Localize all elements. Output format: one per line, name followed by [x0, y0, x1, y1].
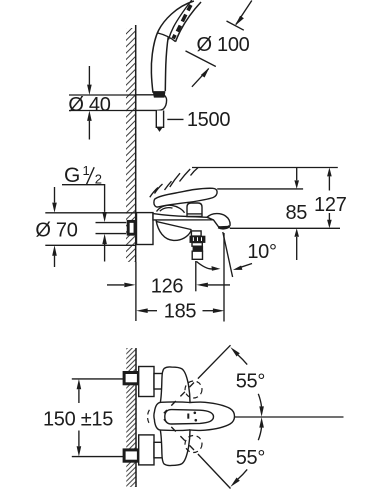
svg-text:85: 85 [285, 202, 307, 224]
dim 150±15 up arrow [78, 389, 80, 403]
supply pipe (side view) [96, 223, 127, 234]
spout outlet face (dark) [218, 226, 229, 228]
svg-text:1: 1 [83, 163, 90, 178]
55° upper diagonal line [198, 345, 231, 378]
shower outlet neck [191, 231, 201, 236]
wall line (bottom figure) [135, 348, 137, 487]
diverter knob [187, 203, 202, 217]
svg-text:126: 126 [151, 276, 184, 298]
hose stub below holder [156, 111, 163, 128]
hidden pivot arc left (dashed) [148, 410, 150, 424]
svg-text:150 ±15: 150 ±15 [43, 408, 113, 430]
shower holder bracket [136, 95, 167, 111]
svg-text:G: G [64, 164, 80, 187]
svg-text:127: 127 [314, 194, 347, 216]
dim G1/2 lower arrow [104, 244, 106, 262]
dim 150±15 bottom extension line [72, 456, 125, 458]
svg-text:Ø 100: Ø 100 [197, 34, 250, 56]
dim Ø70 top arrow [54, 187, 56, 203]
dim line C (outlet axis level) [230, 227, 340, 229]
dim 150±15 down arrow [78, 431, 80, 447]
head rim line [158, 33, 176, 42]
lever motion dashes [150, 168, 198, 198]
dim Ø100 upper ext stub [227, 21, 244, 30]
hose conical connector [153, 92, 165, 98]
dim 85 bottom arrow [296, 237, 298, 260]
top inlet union [154, 374, 163, 390]
bottom inlet nut (dark) [124, 450, 138, 461]
10° vertical reference line [223, 233, 225, 322]
dim Ø70 bottom arrow [54, 256, 56, 267]
shower face plate outer edge [176, 2, 201, 42]
pill top edge across wing [160, 401, 190, 404]
dim line B (85 top, lever rest height) [217, 188, 303, 190]
dim Ø70 bottom extension line [45, 244, 136, 246]
svg-text:1500: 1500 [187, 109, 230, 131]
dim 127 upper arrow [328, 176, 330, 190]
dome inner arc [160, 208, 173, 212]
escutcheon (side view) [137, 213, 154, 245]
dim Ø100 upper arrow [236, 1, 252, 25]
wall (bottom figure) hatched band [126, 348, 136, 487]
dim G1/2 upper arrow [102, 212, 107, 222]
top inlet nut (bottom figure, dark) [124, 373, 138, 384]
svg-text:10°: 10° [247, 241, 276, 263]
hose break mark [157, 127, 162, 131]
svg-text:Ø 70: Ø 70 [35, 220, 77, 242]
body underside belly [156, 220, 191, 240]
hidden union circle top (dashed) [185, 381, 202, 398]
dim 85 top arrow [296, 168, 298, 180]
dim 150±15 top extension line [72, 378, 125, 380]
55° top arc piece 2 with arrow [258, 394, 261, 407]
outlet thread band (dark) [193, 246, 203, 251]
dim line A (127 top, lever raised height) [192, 167, 338, 169]
dim 126 extension line [195, 261, 197, 291]
handle right edge [165, 37, 168, 92]
centerline (bottom figure) [235, 416, 344, 418]
svg-text:Ø 40: Ø 40 [68, 94, 110, 116]
wall extension line down to 185 dim [135, 262, 137, 321]
55° bottom arc piece 1 with arrow [230, 478, 239, 487]
outlet nut knurl marks [193, 237, 201, 241]
dim Ø40 bottom arrow [88, 121, 90, 140]
inner spout pill (top view) [165, 410, 214, 424]
mixer body deck (side view) [153, 214, 213, 220]
dim 185 line right [203, 310, 214, 312]
shower head outer shell and handle left edge [151, 1, 194, 93]
shower face plate inner edge [169, 0, 192, 40]
spray nozzle band [173, 5, 191, 39]
55° lower diagonal hidden dashes [164, 419, 194, 450]
dim Ø70 top extension line [45, 212, 136, 214]
bottom inlet escutcheon [139, 435, 154, 465]
dim 126 right arrow [208, 284, 230, 286]
dim Ø100 lower ext line [186, 51, 216, 67]
outlet neck 2 [192, 243, 202, 247]
dim Ø40 bottom extension line [69, 110, 136, 112]
dim 185 line left [148, 310, 158, 312]
pill bottom edge across wing [160, 429, 190, 432]
lever handle [154, 188, 217, 207]
shower outlet nut (dark) [190, 236, 205, 242]
55° upper diagonal hidden dashes [164, 383, 194, 414]
55° bottom arc piece 2 with arrow [258, 428, 261, 441]
svg-text:185: 185 [164, 301, 197, 323]
svg-text:55°: 55° [236, 371, 265, 393]
svg-text:2: 2 [95, 171, 102, 186]
knob base line [188, 213, 202, 215]
dim G1/2 leader [62, 185, 105, 212]
spout head [207, 214, 230, 227]
55° lower diagonal line [198, 454, 231, 489]
spout detail marks [187, 414, 189, 419]
dim Ø100 lower arrow [192, 69, 209, 87]
wall (upper figures) hatched band [126, 28, 136, 262]
cartridge dome [157, 205, 185, 213]
svg-text:55°: 55° [236, 447, 265, 469]
bottom inlet union [154, 442, 163, 458]
pipe union nut at wall [128, 221, 135, 234]
dim 126 left arrow [107, 284, 124, 286]
10° tilted line [223, 232, 233, 277]
10° leader arrow [241, 264, 253, 268]
55° top arc piece 1 with arrow [230, 347, 239, 356]
hidden union circle bottom (dashed) [185, 436, 202, 453]
wall line (upper) [135, 25, 137, 262]
10° arc with arrow [197, 262, 213, 269]
top inlet escutcheon [139, 367, 154, 397]
outlet lower cylinder [192, 251, 202, 259]
mixer body outline (top view) [154, 367, 235, 466]
dim 127 lower arrow [328, 213, 330, 220]
dim Ø40 top arrow [88, 66, 90, 85]
dim Ø40 top extension line [69, 94, 136, 96]
leader 1500 [167, 118, 183, 120]
